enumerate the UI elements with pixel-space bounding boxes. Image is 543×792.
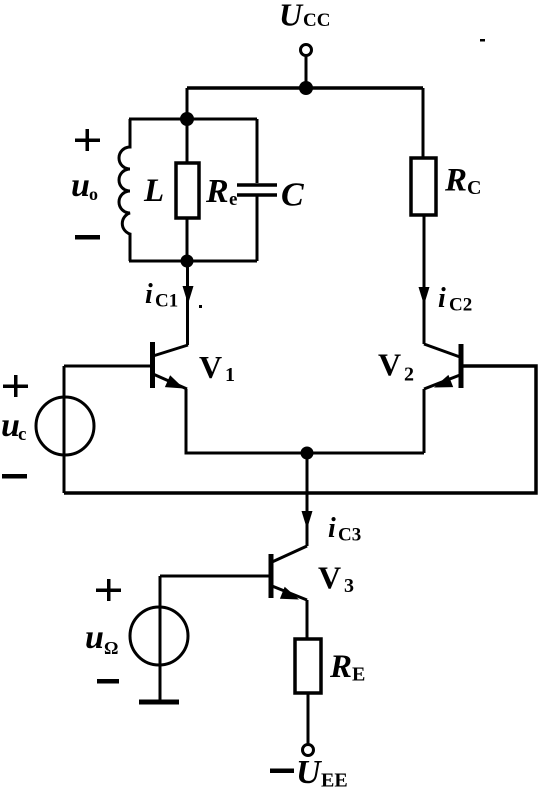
svg-text:V: V bbox=[199, 349, 222, 385]
transistor V2 bbox=[424, 344, 461, 389]
svg-text:C1: C1 bbox=[155, 291, 178, 312]
node tank bottom bbox=[181, 255, 194, 268]
wire V3 base bbox=[160, 575, 270, 578]
transistor V3 bbox=[271, 546, 307, 600]
svg-text:3: 3 bbox=[344, 575, 354, 597]
node tank top bbox=[180, 112, 194, 126]
inductor L bbox=[119, 119, 164, 261]
wire tank top bbox=[129, 118, 257, 121]
svg-text:CC: CC bbox=[303, 10, 330, 31]
svg-text:R: R bbox=[444, 163, 467, 199]
label iC2 bbox=[438, 283, 472, 316]
svg-text:1: 1 bbox=[225, 364, 235, 386]
transistor V1 bbox=[153, 342, 189, 389]
svg-text:V: V bbox=[318, 560, 341, 596]
wire tank bottom bbox=[129, 260, 257, 263]
svg-text:EE: EE bbox=[321, 770, 348, 792]
resistor RE bbox=[295, 639, 365, 693]
speck bbox=[199, 305, 202, 308]
svg-text:i: i bbox=[145, 279, 153, 310]
label uOmega bbox=[85, 619, 118, 658]
label plus uOmega bbox=[96, 579, 121, 601]
wire bottom loop bbox=[64, 366, 536, 493]
label plus uc bbox=[3, 375, 28, 397]
svg-text:u: u bbox=[71, 167, 90, 204]
resistor RC bbox=[411, 158, 481, 215]
wire tank to V1 collector bbox=[186, 261, 189, 345]
svg-text:C2: C2 bbox=[449, 295, 472, 316]
label minus UEE bbox=[270, 769, 294, 774]
label UEE bbox=[296, 754, 348, 792]
terminal UCC bbox=[301, 45, 312, 56]
label minus uOmega bbox=[97, 679, 119, 684]
speck bbox=[480, 39, 485, 42]
svg-text:V: V bbox=[378, 347, 401, 383]
label minus uc bbox=[2, 474, 27, 479]
capacitor C bbox=[237, 119, 304, 261]
svg-text:u: u bbox=[85, 619, 104, 656]
wire V2 collector bbox=[422, 88, 425, 158]
wire V1 base bbox=[64, 365, 152, 368]
arrow iC3 bbox=[302, 511, 313, 529]
label iC1 bbox=[145, 279, 178, 312]
wire V3 emitter to RE bbox=[306, 600, 309, 639]
source uc bbox=[36, 397, 94, 455]
wire uOmega branch bbox=[159, 576, 162, 702]
svg-text:R: R bbox=[205, 173, 229, 210]
terminal UEE bbox=[303, 745, 314, 756]
label V2 bbox=[378, 347, 414, 386]
wire V1 emitter down bbox=[186, 389, 424, 453]
wire V2 emitter down bbox=[423, 389, 426, 453]
svg-text:C3: C3 bbox=[338, 525, 361, 546]
svg-text:c: c bbox=[18, 424, 26, 445]
resistor Re bbox=[176, 119, 237, 261]
wire terminal to top rail bbox=[305, 56, 308, 88]
svg-text:E: E bbox=[352, 664, 365, 686]
wire RE to terminal bbox=[307, 693, 310, 744]
svg-text:U: U bbox=[296, 754, 323, 791]
svg-text:L: L bbox=[143, 173, 164, 209]
label plus uo bbox=[75, 129, 100, 151]
label minus uo bbox=[75, 235, 100, 240]
label uc bbox=[1, 407, 26, 445]
label uo bbox=[71, 167, 98, 204]
label iC3 bbox=[328, 513, 361, 546]
label UCC bbox=[279, 0, 330, 33]
source uOmega bbox=[130, 607, 188, 665]
svg-text:C: C bbox=[281, 177, 304, 214]
wire rail down to tank bbox=[186, 88, 189, 119]
wire RC to V2 bbox=[423, 215, 426, 344]
svg-text:i: i bbox=[438, 283, 446, 314]
svg-text:e: e bbox=[229, 189, 237, 210]
svg-text:U: U bbox=[279, 0, 304, 33]
arrow iC1 bbox=[183, 286, 194, 304]
wire top rail bbox=[187, 86, 423, 90]
svg-text:R: R bbox=[329, 649, 352, 685]
label V1 bbox=[199, 349, 235, 386]
wire uc branch bbox=[63, 366, 66, 493]
svg-text:i: i bbox=[328, 513, 336, 544]
svg-text:2: 2 bbox=[404, 364, 414, 386]
wire junction to V3 bbox=[306, 453, 309, 546]
arrow iC2 bbox=[419, 287, 430, 305]
svg-text:Ω: Ω bbox=[104, 638, 118, 658]
label V3 bbox=[318, 560, 354, 598]
node emitter junction bbox=[301, 447, 314, 460]
svg-text:o: o bbox=[89, 184, 98, 204]
svg-text:C: C bbox=[467, 177, 481, 199]
node top rail junction bbox=[299, 81, 313, 95]
ground bbox=[139, 700, 179, 705]
